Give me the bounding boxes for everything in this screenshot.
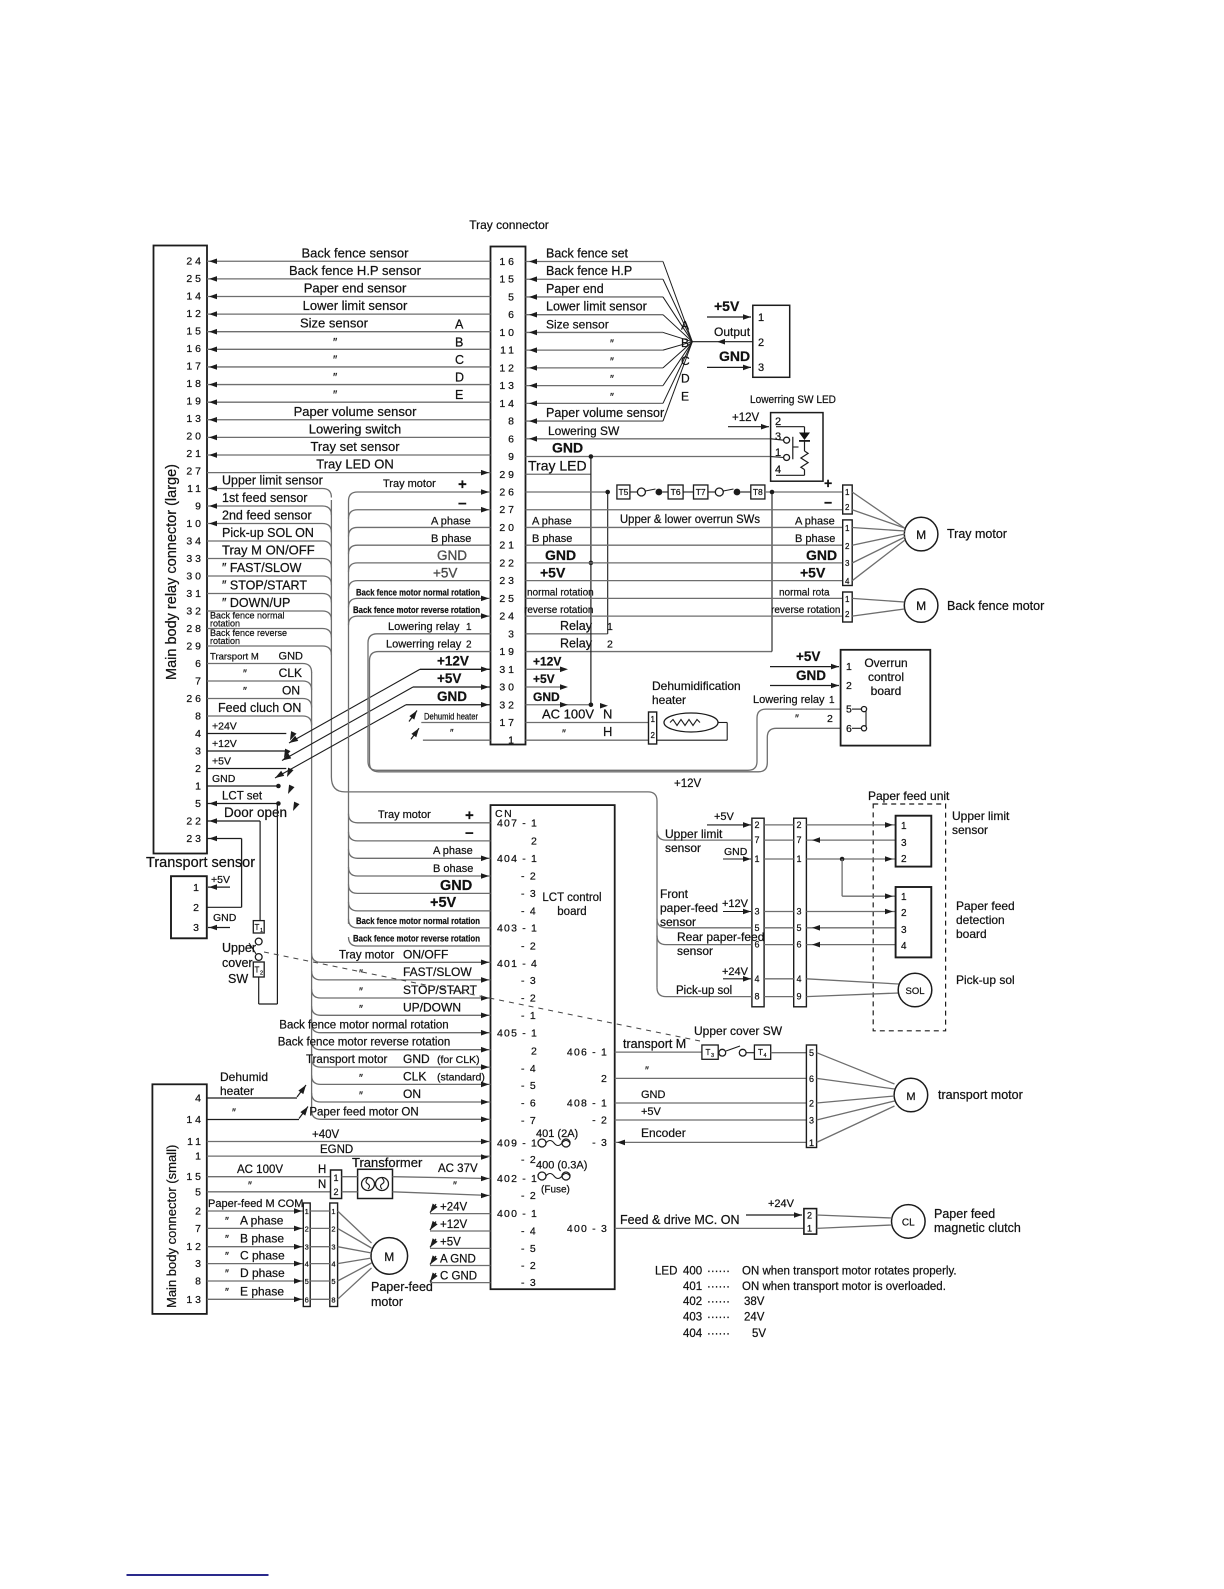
wire: dehumid heater row pin14: [207, 1105, 311, 1120]
svg-text:Back fence motor reverse rotat: Back fence motor reverse rotation: [278, 1037, 451, 1049]
svg-text:+12V: +12V: [440, 1219, 468, 1231]
svg-text:GND: GND: [403, 1052, 430, 1066]
wire: tray motor harness lower row into LCT CN: [349, 902, 491, 911]
svg-text:″: ″: [333, 335, 338, 349]
svg-text:B phase: B phase: [431, 533, 471, 545]
svg-text:3: 3: [508, 628, 517, 640]
svg-text:1: 1: [901, 821, 907, 832]
svg-text:23: 23: [499, 575, 517, 587]
svg-text:23: 23: [186, 833, 204, 845]
svg-text:27: 27: [499, 504, 517, 516]
svg-text:+5V: +5V: [433, 566, 457, 581]
wire: transport M row (CN406-1): [615, 1037, 702, 1052]
label: -: [458, 496, 467, 513]
svg-text:A phase: A phase: [532, 515, 572, 527]
svg-text:motor: motor: [371, 1295, 403, 1309]
svg-text:17: 17: [499, 717, 517, 729]
svg-text:7: 7: [195, 1223, 204, 1235]
svg-text:GND: GND: [641, 1089, 666, 1101]
svg-text:Size sensor: Size sensor: [546, 317, 609, 331]
wire: Transport motor GND to LCT board: [306, 1052, 491, 1070]
wire: transport sensor pin2 up to pin23 row: [207, 906, 242, 908]
connector: Main body relay connector (large): [154, 246, 208, 854]
svg-text:409 - 1: 409 - 1: [497, 1138, 538, 1150]
IC: Overrun control board: [841, 650, 931, 746]
wire: Tray LED ON (pins 27-29): [207, 457, 491, 476]
svg-text:+12V: +12V: [674, 778, 702, 790]
wire: Paper end sensor (pins 14-5): [207, 280, 491, 299]
svg-text:24V: 24V: [744, 1312, 765, 1324]
svg-text:Back fence H.P: Back fence H.P: [546, 264, 632, 278]
svg-text:SW: SW: [228, 972, 248, 986]
label: Rear paper-feed sensor: [677, 930, 764, 958]
svg-text:Tray connector: Tray connector: [469, 218, 549, 232]
svg-text:Trarsport M: Trarsport M: [210, 652, 259, 663]
svg-text:+12V: +12V: [732, 412, 760, 424]
svg-text:- 7: - 7: [521, 1115, 537, 1127]
svg-text:1: 1: [829, 695, 835, 706]
wire: tray motor harness upper row to tray pin 24: [349, 613, 491, 625]
svg-text:Feed cluch ON: Feed cluch ON: [218, 701, 301, 715]
svg-text:UP/DOWN: UP/DOWN: [403, 1000, 461, 1014]
svg-text:2: 2: [331, 1224, 335, 1233]
svg-text:5: 5: [305, 1277, 309, 1286]
svg-text:1: 1: [331, 1207, 335, 1216]
svg-text:7: 7: [195, 676, 204, 688]
svg-text:405 - 1: 405 - 1: [497, 1028, 538, 1040]
svg-text:C phase: C phase: [240, 1249, 285, 1263]
svg-text:13: 13: [499, 380, 517, 392]
svg-text:6: 6: [846, 723, 852, 735]
connector: paper-feed motor column 2: [330, 1203, 338, 1307]
wire: +12V (pin 3): [207, 738, 286, 751]
sensor: Transport sensor: [146, 855, 255, 938]
svg-text:A phase: A phase: [433, 845, 473, 857]
svg-text:Back fence set: Back fence set: [546, 247, 629, 261]
svg-text:E: E: [681, 389, 689, 403]
wire: +5V (pin 2): [207, 756, 286, 769]
connector: transport motor column: [806, 1045, 816, 1148]
svg-text:2: 2: [195, 763, 204, 775]
svg-text:Back fence sensor: Back fence sensor: [302, 245, 410, 260]
svg-text:CL: CL: [902, 1218, 915, 1229]
svg-text:B phase: B phase: [795, 533, 835, 545]
svg-text:1: 1: [195, 781, 204, 793]
svg-text:8: 8: [195, 1276, 204, 1288]
svg-text:GND: GND: [806, 547, 837, 563]
node: sensor fan convergence: [526, 259, 753, 424]
label: +5V (lower): [430, 895, 457, 911]
svg-text:−: −: [465, 825, 474, 842]
svg-text:Encoder: Encoder: [641, 1126, 686, 1140]
wire: +5V into tray pin 30: [413, 671, 568, 690]
connector: transformer input 2-pin: [331, 1170, 342, 1199]
svg-text:400 - 3: 400 - 3: [567, 1223, 608, 1235]
svg-text:2: 2: [607, 639, 613, 651]
svg-text:1: 1: [807, 1224, 812, 1234]
svg-text:5: 5: [195, 798, 204, 810]
svg-text:ON/OFF: ON/OFF: [403, 947, 448, 961]
svg-text:″: ″: [645, 1065, 649, 1077]
svg-text:24: 24: [186, 256, 204, 268]
svg-text:- 4: - 4: [521, 1063, 537, 1075]
wire: paper-feed motor E phase row: [207, 1284, 303, 1302]
label: Dehumidification heater: [652, 679, 741, 707]
labels: + and - near tray motor connector: [824, 475, 832, 511]
svg-text:″: ″: [562, 728, 566, 740]
svg-text:Lowering relay: Lowering relay: [388, 621, 460, 633]
svg-text:2: 2: [466, 640, 472, 651]
svg-text:Back fence motor reverse rotat: Back fence motor reverse rotation: [353, 605, 480, 616]
wire: +5V into column pin2: [707, 811, 751, 828]
svg-text:2: 2: [845, 610, 850, 619]
wire: Lowering SW (tray pin 6 to LED unit): [526, 424, 771, 442]
wire: +12V into tray pin 31: [420, 653, 568, 672]
svg-text:+5V: +5V: [533, 672, 555, 686]
svg-text:1: 1: [845, 595, 850, 604]
svg-text:Upper cover SW: Upper cover SW: [694, 1024, 783, 1038]
svg-text:ON: ON: [403, 1087, 421, 1101]
wires between connector columns: [764, 825, 794, 997]
svg-text:Paper feed: Paper feed: [934, 1207, 995, 1221]
svg-text:+5V: +5V: [714, 298, 740, 314]
switch: upper cover SW (T1,T2): [222, 804, 277, 1005]
switch inside LED unit: [771, 437, 799, 461]
wire: dehumid heater row pin4: [207, 1070, 309, 1098]
svg-text:26: 26: [499, 486, 517, 498]
svg-text:1: 1: [260, 928, 263, 934]
svg-text:1: 1: [755, 854, 760, 864]
label: size D (right): [610, 372, 690, 386]
svg-text:408 - 1: 408 - 1: [567, 1098, 608, 1110]
svg-text:magnetic clutch: magnetic clutch: [934, 1221, 1021, 1235]
svg-text:+24V: +24V: [768, 1198, 795, 1210]
svg-text:Upper & lower overrun SWs: Upper & lower overrun SWs: [620, 514, 760, 526]
svg-text:6: 6: [809, 1074, 814, 1084]
svg-text:Lowerring relay: Lowerring relay: [386, 639, 462, 651]
svg-text:A phase: A phase: [795, 515, 835, 527]
clutch: paper feed magnetic clutch: [817, 1205, 1021, 1239]
connector: Main body connector (small): [152, 1084, 206, 1314]
svg-text:+24V: +24V: [722, 966, 749, 978]
svg-text:″: ″: [359, 1003, 363, 1015]
wire: Transport M ON (pin 26): [207, 684, 312, 708]
label: Size sensor (right): [546, 317, 689, 332]
svg-text:″: ″: [610, 338, 614, 350]
wire: +5V row (CN408-2): [615, 1106, 807, 1120]
connector: tray motor 4-pin: [843, 520, 853, 586]
svg-text:31: 31: [499, 664, 517, 676]
wire: tray motor harness lower row into LCT CN: [349, 867, 491, 879]
svg-text:- 3: - 3: [521, 1277, 537, 1289]
svg-text:normal rotation: normal rotation: [527, 587, 594, 598]
svg-text:+5V: +5V: [430, 895, 457, 911]
svg-text:Tray set sensor: Tray set sensor: [310, 439, 400, 454]
wire: GND row (tray pin 9 to LED unit): [526, 440, 771, 457]
wire: Paper volume sensor (pins 13-8): [207, 404, 491, 423]
pin labels: LCT control board left side (CN407/404/403/401/405/409/402/400): [497, 817, 538, 1289]
svg-text:Tray motor: Tray motor: [383, 478, 436, 490]
switch: T3 T4: [702, 1045, 807, 1059]
svg-text:C: C: [455, 353, 464, 367]
svg-text:Paper end: Paper end: [546, 282, 604, 296]
svg-text:normal rota: normal rota: [779, 587, 830, 598]
svg-text:4: 4: [195, 728, 204, 740]
svg-text:- 6: - 6: [521, 1098, 537, 1110]
wire: +5V into transport sensor pin1: [208, 874, 230, 890]
label: Back fence set (right): [546, 247, 629, 261]
svg-text:FAST/SLOW: FAST/SLOW: [403, 965, 472, 979]
label: B phase: [431, 533, 471, 545]
wire: size sensor D (pins 18-13): [207, 371, 491, 388]
svg-text:Relay: Relay: [560, 619, 593, 633]
svg-text:T: T: [255, 923, 260, 932]
wire: tray motor harness upper row to tray pin 21: [349, 545, 491, 554]
label: Lower limit sensor (right): [546, 300, 647, 314]
label: size B (right): [610, 336, 689, 350]
svg-text:- 5: - 5: [521, 1243, 537, 1255]
svg-text:N: N: [318, 1179, 326, 1191]
svg-text:5: 5: [846, 704, 852, 716]
svg-text:Paper volume sensor: Paper volume sensor: [546, 406, 664, 420]
svg-text:GND: GND: [719, 348, 750, 364]
svg-text:C: C: [681, 354, 690, 368]
wire: AC 37V second row to LCT: [393, 1180, 491, 1198]
svg-text:15: 15: [499, 274, 517, 286]
label: Back fence motor reverse rotation: [353, 605, 480, 616]
svg-text:″: ″: [243, 686, 247, 698]
svg-text:board: board: [557, 906, 586, 918]
svg-text:4: 4: [775, 464, 781, 476]
svg-text:GND: GND: [212, 773, 236, 785]
connector: paper-feed motor column 1: [303, 1203, 310, 1307]
svg-text:3: 3: [797, 907, 802, 917]
svg-text:6: 6: [508, 433, 517, 445]
svg-text:″ DOWN/UP: ″ DOWN/UP: [222, 596, 290, 610]
svg-text:5: 5: [331, 1277, 335, 1286]
svg-text:+5V: +5V: [714, 811, 735, 823]
wire: size sensor B (pins 16-11): [207, 335, 491, 352]
svg-text:Main body relay connector (lar: Main body relay connector (large): [164, 464, 180, 680]
svg-text:GND: GND: [213, 912, 237, 924]
svg-text:D: D: [455, 371, 464, 385]
wire: +5V into overrun board pin1: [770, 649, 839, 669]
wire: tray motor harness lower row into LCT CN: [349, 919, 491, 928]
svg-text:1: 1: [334, 1173, 339, 1183]
wire: +12V into column pin3: [722, 898, 751, 914]
wire: ″ FAST/SLOW (pin 30): [207, 561, 331, 585]
svg-text:Upper limit: Upper limit: [952, 809, 1010, 823]
svg-text:- 2: - 2: [521, 941, 537, 953]
wire: Tray motor ON/OFF to LCT board: [312, 947, 491, 965]
svg-text:14: 14: [186, 1114, 204, 1126]
svg-text:21: 21: [499, 540, 517, 552]
connector: dehumid heater 2-pin: [649, 712, 657, 744]
label: Back fence H.P (right): [546, 264, 632, 278]
wire: Lower limit sensor (pins 12-6): [207, 298, 491, 317]
wire: Feed & drive MC. ON row (CN400-3): [615, 1213, 804, 1228]
svg-text:B: B: [455, 335, 463, 349]
svg-text:Transport sensor: Transport sensor: [146, 855, 255, 871]
vertical bus of harness A (x=331.4): [330, 500, 332, 777]
svg-text:6: 6: [195, 658, 204, 670]
svg-text:34: 34: [186, 536, 204, 548]
svg-text:- 3: - 3: [521, 888, 537, 900]
diagonal wire: +12V cross-link: [287, 669, 420, 745]
svg-text:403: 403: [683, 1312, 702, 1324]
wire: Tray set sensor (pins 21-9): [207, 439, 491, 458]
svg-text:1: 1: [846, 661, 852, 673]
svg-text:2: 2: [531, 835, 538, 847]
svg-text:Upper limit sensor: Upper limit sensor: [222, 474, 323, 488]
svg-text:″: ″: [795, 713, 799, 725]
svg-text:+: +: [824, 475, 832, 491]
svg-text:22: 22: [186, 816, 204, 828]
svg-text:+24V: +24V: [440, 1202, 468, 1214]
svg-text:- 5: - 5: [521, 1080, 537, 1092]
wire: 2nd feed sensor (pin 10): [207, 509, 331, 533]
svg-text:401: 401: [683, 1281, 702, 1293]
svg-text:15: 15: [186, 1171, 204, 1183]
svg-text:3: 3: [901, 925, 907, 936]
svg-text:+12V: +12V: [212, 738, 237, 750]
wire: LCT set (pin 1): [207, 791, 281, 807]
svg-text:- 2: - 2: [521, 871, 537, 883]
svg-text:D phase: D phase: [240, 1266, 285, 1280]
svg-text:······: ······: [707, 1281, 730, 1293]
svg-text:Back fence H.P sensor: Back fence H.P sensor: [289, 263, 422, 278]
solenoid: pick-up sol: [898, 973, 1014, 1007]
svg-text:Tray motor: Tray motor: [947, 527, 1007, 541]
wire: size sensor E (pins 19-14): [207, 388, 491, 405]
svg-text:D: D: [681, 372, 690, 386]
wire: +24V into column pin4: [722, 966, 751, 982]
wire: paper-feed motor A phase row: [207, 1213, 303, 1231]
svg-text:Size sensor: Size sensor: [300, 316, 369, 331]
wire: Door open (pin 5): [207, 805, 287, 824]
svg-text:GND: GND: [279, 651, 304, 663]
label: GND: [437, 548, 467, 563]
svg-text:B phase: B phase: [240, 1232, 284, 1246]
label: A phase (lower): [433, 845, 473, 857]
heater element: [657, 713, 728, 740]
svg-text:T: T: [255, 966, 260, 975]
wire: +12V into LED unit pin2: [728, 412, 769, 430]
svg-text:Transformer: Transformer: [352, 1155, 423, 1170]
diagonal wire: GND cross-link: [273, 705, 406, 781]
svg-text:32: 32: [499, 699, 517, 711]
svg-text:CLK: CLK: [279, 666, 302, 680]
svg-text:″ STOP/START: ″ STOP/START: [222, 579, 307, 593]
wire: tray motor harness lower row into LCT CN: [349, 937, 491, 946]
svg-text:1: 1: [466, 622, 472, 633]
svg-text:−: −: [824, 495, 832, 511]
wire: paper-feed motor C phase row: [207, 1249, 303, 1267]
svg-text:B ohase: B ohase: [433, 863, 473, 875]
svg-text:20: 20: [499, 522, 517, 534]
svg-text:B phase: B phase: [532, 533, 572, 545]
svg-text:2: 2: [651, 731, 656, 740]
svg-text:sensor: sensor: [952, 823, 988, 837]
svg-text:2: 2: [260, 971, 263, 977]
svg-text:GND: GND: [552, 440, 583, 456]
svg-text:(for CLK): (for CLK): [437, 1054, 480, 1066]
wire: AC 37V row to LCT: [393, 1163, 491, 1181]
svg-text:sensor: sensor: [677, 944, 713, 958]
svg-text:2: 2: [797, 820, 802, 830]
svg-text:14: 14: [499, 398, 517, 410]
label: Upper limit sensor (left): [665, 827, 723, 855]
svg-text:M: M: [906, 1091, 915, 1103]
svg-text:T7: T7: [696, 487, 706, 497]
svg-text:Back fence motor reverse rotat: Back fence motor reverse rotation: [353, 934, 480, 945]
svg-text:- 3: - 3: [592, 1137, 608, 1149]
svg-text:Pick-up SOL ON: Pick-up SOL ON: [222, 526, 314, 540]
svg-text:13: 13: [186, 1294, 204, 1306]
svg-text:″: ″: [333, 371, 338, 385]
svg-text:M: M: [916, 528, 926, 542]
svg-text:404 - 1: 404 - 1: [497, 853, 538, 865]
svg-text:″: ″: [333, 353, 338, 367]
svg-text:3: 3: [195, 1258, 204, 1270]
vertical bus of tray motor harness (x=348.5): [348, 501, 350, 924]
svg-text:400 (0.3A): 400 (0.3A): [536, 1160, 587, 1172]
svg-text:15: 15: [186, 326, 204, 338]
svg-text:- 4: - 4: [521, 905, 537, 917]
svg-text:″: ″: [333, 388, 338, 402]
label: Paper volume sensor (right): [546, 406, 664, 420]
svg-text:4: 4: [195, 1093, 204, 1105]
fuse 401 (2A): [536, 1128, 578, 1147]
svg-text:2: 2: [195, 1206, 204, 1218]
svg-text:reverse rotation: reverse rotation: [524, 605, 593, 616]
svg-text:11: 11: [187, 483, 204, 495]
label: - (lower): [465, 825, 474, 842]
arrow: dehumid cross-ref lower: [411, 726, 421, 739]
svg-text:4: 4: [797, 974, 802, 984]
motor: back fence motor: [852, 589, 1044, 623]
svg-text:Dehumid heater: Dehumid heater: [424, 711, 478, 721]
svg-text:EGND: EGND: [320, 1144, 353, 1156]
svg-text:5: 5: [797, 923, 802, 933]
wire: AC100V H row: [526, 724, 649, 740]
svg-text:A: A: [455, 318, 464, 332]
svg-text:8: 8: [331, 1295, 335, 1304]
svg-text:Tray motor: Tray motor: [339, 949, 394, 961]
svg-text:26: 26: [186, 693, 204, 705]
svg-text:+5V: +5V: [212, 756, 231, 768]
wire: Paper-feed M COM row: [207, 1198, 304, 1214]
svg-text:heater: heater: [652, 693, 686, 707]
svg-text:21: 21: [186, 448, 204, 460]
wire: AC 100V H row: [207, 1164, 331, 1177]
svg-text:GND: GND: [533, 690, 560, 704]
wire: size sensor C (pins 17-12): [207, 353, 491, 370]
wire: AC 100V N row: [207, 1179, 331, 1192]
svg-text:11: 11: [500, 345, 517, 357]
svg-text:11: 11: [187, 1136, 204, 1148]
svg-text:T: T: [706, 1048, 711, 1057]
svg-text:406 - 1: 406 - 1: [567, 1047, 608, 1059]
svg-text:24: 24: [499, 611, 517, 623]
svg-text:Back fence motor normal rotati: Back fence motor normal rotation: [356, 587, 480, 598]
svg-text:Back fence motor normal rotati: Back fence motor normal rotation: [356, 916, 480, 927]
wire: tray motor harness upper row to tray pin 23: [349, 581, 491, 590]
connector: Tray connector: [469, 218, 549, 747]
wire: Lowering relay 1 (tray pin 3 to overrun board pin 5): [368, 621, 841, 770]
svg-text:19: 19: [499, 646, 517, 658]
svg-text:Upper limit: Upper limit: [665, 827, 723, 841]
